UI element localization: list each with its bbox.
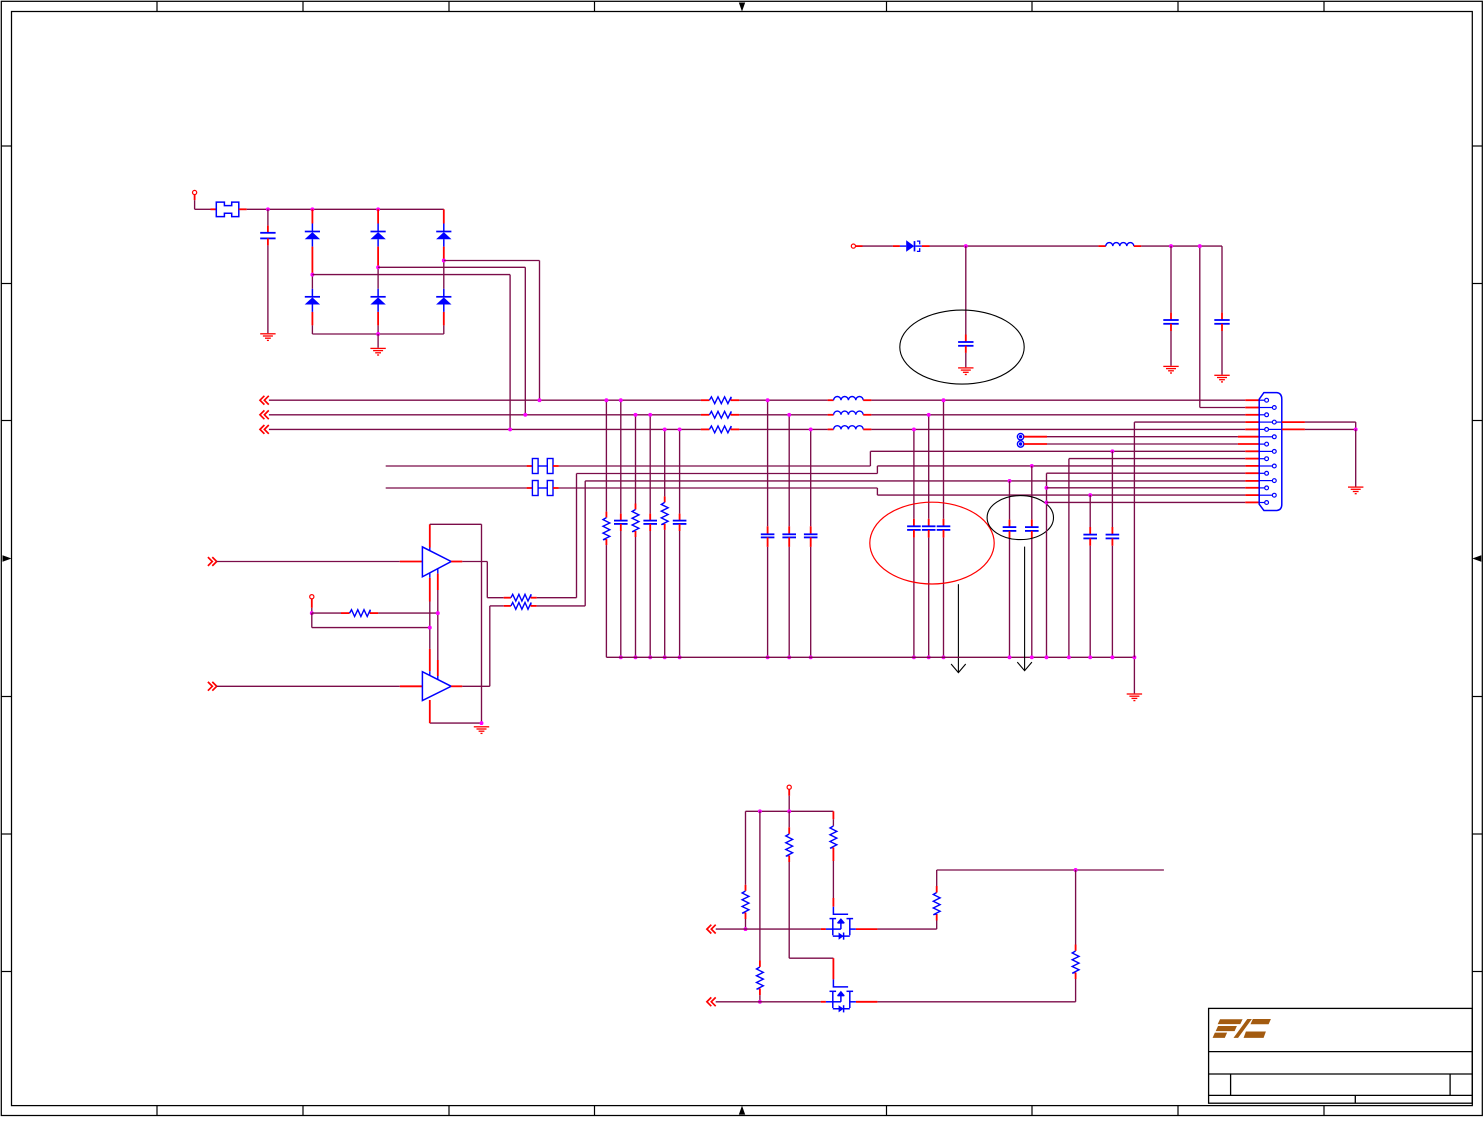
capacitor C52 bbox=[1025, 527, 1039, 531]
wire R23 to bus bbox=[664, 524, 666, 657]
wire R2 lead left bbox=[701, 414, 710, 416]
wire pin15 row bbox=[1047, 501, 1246, 503]
resistor R32 bbox=[511, 594, 531, 601]
junction buffer gnd bbox=[480, 721, 484, 725]
wire pin15 stub bbox=[1245, 501, 1259, 503]
wire R31 to U1 pin bbox=[370, 612, 438, 614]
port chevron video line 2 bbox=[260, 410, 269, 419]
wire drop to C31 bbox=[767, 400, 769, 534]
wire R46 drop bbox=[1075, 870, 1077, 951]
wire TP3 to D7 bbox=[856, 245, 907, 247]
wire bus to ground bbox=[377, 334, 379, 348]
capacitor C23 bbox=[673, 521, 687, 524]
resistor R12 on line 2 bbox=[709, 411, 731, 418]
wire C43 to bus bbox=[913, 530, 915, 657]
wire R32 to riser bbox=[531, 474, 577, 598]
junction v1046 bus bbox=[1045, 655, 1049, 659]
wire line 1 mid run bbox=[739, 399, 827, 401]
diode D7 bbox=[906, 240, 922, 252]
junction pin14 row bbox=[1088, 493, 1092, 497]
junction line3-bridge bbox=[508, 427, 512, 431]
wire filter line 2 to step bbox=[559, 487, 878, 489]
junction C41 top bbox=[942, 398, 946, 402]
wire C32 to bus bbox=[788, 537, 790, 657]
wire video line 3 left run bbox=[269, 428, 701, 430]
wire bridge row1 to line1 bbox=[444, 261, 540, 401]
wire R42 to sig2 bbox=[759, 989, 761, 1002]
inductor L3 bbox=[834, 426, 864, 430]
wire step up to pin8 row bbox=[869, 451, 871, 466]
wire C41 to bus bbox=[943, 530, 945, 657]
resistor R31 bbox=[350, 610, 371, 617]
port chevron signal 1 bbox=[707, 925, 716, 934]
wire pin13 row bbox=[1047, 487, 1246, 489]
capacitor C42 bbox=[922, 526, 936, 530]
wire U1A output bbox=[451, 562, 511, 598]
wire pin11 stub bbox=[1245, 472, 1259, 474]
wire C21 to bus bbox=[620, 524, 622, 657]
junction C33 bus bbox=[809, 655, 813, 659]
capacitor C63 bbox=[1214, 320, 1229, 324]
wire line 1 connector stub bbox=[1245, 399, 1259, 401]
wire drop to C43 bbox=[913, 429, 915, 526]
wire pin7 row bbox=[1024, 443, 1259, 445]
junction C32 bus bbox=[787, 655, 791, 659]
wire TP4 down bbox=[788, 789, 790, 811]
wire R22 to bus bbox=[635, 531, 637, 657]
wire pin4 riser bbox=[1133, 422, 1135, 657]
inductor L1 bbox=[834, 397, 864, 401]
wire FB2 lead left bbox=[527, 487, 533, 489]
wire TP1 to fuse bbox=[195, 195, 217, 210]
wire bridge row3 to line3 bbox=[312, 275, 510, 430]
junction pin13 riser bbox=[1045, 486, 1049, 490]
ground below C63 bbox=[1214, 375, 1229, 382]
wire R2 lead right bbox=[731, 414, 740, 416]
diode D3 bbox=[436, 224, 451, 247]
wire R42 drop bbox=[759, 811, 761, 967]
wire pin9 row bbox=[1069, 458, 1245, 460]
junction R31 at pin b bbox=[436, 611, 440, 615]
ground below C62 bbox=[1163, 366, 1178, 373]
wire drop to C42 bbox=[928, 415, 930, 526]
wire C1 to ground bbox=[267, 238, 269, 333]
wire v1031 cap drop bbox=[1031, 466, 1033, 527]
wire D2 anode lead bbox=[377, 209, 379, 223]
wire video line 1 left run bbox=[269, 399, 701, 401]
wire pin9 stub bbox=[1245, 458, 1259, 460]
terminal TP4 bbox=[787, 785, 791, 789]
wire C61 to ground bbox=[965, 346, 967, 368]
junction pin10 row bbox=[1030, 464, 1034, 468]
wire drop to C21 bbox=[620, 400, 622, 520]
resistor R45 bbox=[933, 893, 940, 915]
wire D1 anode lead bbox=[311, 209, 313, 223]
wire line 3 connector stub bbox=[1245, 428, 1259, 430]
resistor R33 bbox=[511, 603, 531, 610]
junction R41 sig1 bbox=[744, 927, 748, 931]
capacitor C51 bbox=[1003, 527, 1017, 531]
wire L3 lead left bbox=[828, 428, 834, 430]
wire buffer gnd rail bottom bbox=[430, 700, 482, 723]
junction line2-bridge bbox=[523, 413, 527, 417]
wire buffer2 input bbox=[217, 685, 423, 687]
FIC company logo bbox=[1213, 1019, 1271, 1038]
inductor L4 bbox=[1106, 243, 1134, 246]
wire R44 drop bbox=[832, 811, 834, 826]
junction pin12 row bbox=[1008, 479, 1012, 483]
wire ground bus bbox=[606, 656, 1134, 658]
wire filter line 2 left bbox=[386, 487, 527, 489]
ferrite bead FB1b bbox=[547, 459, 553, 474]
wire C51 to bus bbox=[1009, 531, 1011, 657]
wire pin9 riser bbox=[1068, 459, 1070, 658]
junction C41 bus bbox=[942, 655, 946, 659]
junction TP2 node bbox=[310, 611, 314, 615]
wire R3 lead left bbox=[701, 428, 710, 430]
wire drop to R22 bbox=[635, 415, 637, 510]
resistor R44 bbox=[830, 826, 837, 848]
wire L2 lead right bbox=[863, 414, 871, 416]
wire U1A pin stub b bbox=[437, 569, 439, 680]
wire drop to R23 bbox=[664, 429, 666, 502]
junction C32 top bbox=[787, 413, 791, 417]
wire line 2 connector stub bbox=[1245, 414, 1259, 416]
wire R3 lead right bbox=[731, 428, 740, 430]
wire pin10 stub bbox=[1245, 465, 1259, 467]
junction C33 top bbox=[809, 427, 813, 431]
diode D4 bbox=[305, 289, 320, 312]
terminal TP2 bbox=[310, 595, 314, 599]
resistor R13 on line 3 bbox=[709, 426, 731, 433]
capacitor C54 bbox=[1106, 535, 1120, 539]
wire pin11 riser bbox=[1046, 473, 1048, 657]
annotation arrow 2 bbox=[1017, 547, 1032, 671]
junction C42 bus bbox=[927, 655, 931, 659]
port chevron signal 2 bbox=[707, 997, 716, 1006]
wire C63 to ground bbox=[1221, 324, 1223, 375]
wire buffer power rail bbox=[430, 524, 482, 723]
wire D1 to mid row bbox=[311, 247, 313, 289]
wire v1009 cap drop bbox=[1009, 481, 1011, 527]
junction C53 bus bbox=[1088, 655, 1092, 659]
resistor R22 bbox=[632, 510, 639, 532]
wire step down to pin14 row bbox=[876, 488, 878, 495]
junction on top rail at D1 bbox=[310, 207, 314, 211]
wire C53 to bus bbox=[1089, 538, 1091, 657]
junction C51 bus bbox=[1008, 655, 1012, 659]
wire D5 to bottom bus bbox=[377, 312, 379, 334]
wire pin2 feed bbox=[1200, 246, 1259, 407]
junction on top rail at C1 bbox=[266, 207, 270, 211]
wire R41 drop bbox=[745, 811, 747, 891]
port chevron VSYNC in bbox=[208, 682, 217, 691]
wire gate rail bbox=[746, 810, 834, 812]
junction R23 top bbox=[663, 427, 667, 431]
ground at bus end bbox=[1127, 694, 1142, 701]
junction C31 bus bbox=[766, 655, 770, 659]
wire pin4 row bbox=[1134, 421, 1245, 423]
wire pin14 stub bbox=[1245, 494, 1259, 496]
wire pin10 row bbox=[877, 465, 1245, 467]
wire C63 drop bbox=[1221, 246, 1223, 320]
wire R46 to Q2 drain bbox=[856, 973, 1076, 1002]
wire R41 to sig1 bbox=[745, 913, 747, 930]
wire U1A pin stub a bbox=[429, 573, 431, 676]
junction C31 top bbox=[766, 398, 770, 402]
wire pin12 stub bbox=[1245, 480, 1259, 482]
diode D6 bbox=[436, 289, 451, 312]
wire step up to pin10 row bbox=[876, 466, 878, 474]
diode D1 bbox=[305, 224, 320, 247]
junction rail a bbox=[758, 809, 762, 813]
capacitor C61 bbox=[958, 342, 973, 346]
junction C42 top bbox=[927, 413, 931, 417]
resistor R42 bbox=[757, 967, 764, 989]
wire C54 to bus bbox=[1111, 538, 1113, 657]
wire v1090 cap drop bbox=[1089, 495, 1091, 534]
wire drop to C22 bbox=[649, 415, 651, 521]
wire C42 to bus bbox=[928, 530, 930, 657]
port chevron HSYNC in bbox=[208, 557, 217, 566]
junction at pin2 feed bbox=[1198, 244, 1202, 248]
wire R31 lead left bbox=[312, 612, 350, 614]
wire buffer1 line to step bbox=[577, 473, 878, 475]
wire C31 to bus bbox=[767, 537, 769, 657]
wire fuse to top rail bbox=[239, 208, 268, 210]
ground below bridge bbox=[370, 348, 385, 355]
wire C23 to bus bbox=[679, 524, 681, 657]
junction branch at pin a bbox=[428, 626, 432, 630]
wire L1 lead right bbox=[863, 399, 871, 401]
capacitor C53 bbox=[1083, 535, 1097, 539]
wire D6 to bottom bus bbox=[443, 312, 445, 334]
wire D4 to bottom bus bbox=[311, 312, 313, 334]
junction R23 bus bbox=[663, 655, 667, 659]
wire pin5 right exit bbox=[1282, 428, 1356, 430]
wire FB1 lead left bbox=[527, 465, 533, 467]
terminal TP3 bbox=[851, 244, 855, 248]
junction C21 bus bbox=[619, 655, 623, 659]
ferrite bead FB2b bbox=[547, 481, 553, 496]
bead terminal pin6 bbox=[1017, 434, 1023, 440]
junction on top rail at D2 bbox=[376, 207, 380, 211]
resistor R46 bbox=[1072, 951, 1079, 973]
wire TP2 down bbox=[311, 599, 313, 613]
resistor R43 bbox=[786, 834, 793, 856]
wire L4 to caps bbox=[1134, 245, 1222, 247]
wire bus stem to ground bbox=[1133, 657, 1135, 693]
wire pin11 row bbox=[1047, 472, 1246, 474]
connector J1 DB15 bbox=[1259, 393, 1282, 511]
junction shield node bbox=[1354, 427, 1358, 431]
wire C62 drop bbox=[1170, 246, 1172, 320]
capacitor C21 bbox=[614, 521, 628, 524]
wire U1B output bbox=[451, 606, 511, 686]
wire D7 to L4 bbox=[922, 245, 1106, 247]
wire R1 lead left bbox=[701, 399, 710, 401]
junction R21 top bbox=[604, 398, 608, 402]
resistor R41 bbox=[742, 891, 749, 913]
wire pin4 right exit bbox=[1282, 422, 1356, 429]
junction R42 sig2 bbox=[758, 1000, 762, 1004]
capacitor C43 bbox=[907, 526, 921, 530]
junction bridge bus bbox=[376, 332, 380, 336]
wire line 3 mid run bbox=[739, 428, 827, 430]
wire signal1 bbox=[716, 928, 826, 930]
wire C52 to bus bbox=[1031, 531, 1033, 657]
junction line1-bridge bbox=[538, 398, 542, 402]
buffer U1A bbox=[422, 547, 451, 577]
wire drop to C32 bbox=[788, 415, 790, 534]
junction at C61 tap bbox=[964, 244, 968, 248]
diode D5 bbox=[370, 289, 385, 312]
terminal TP1 bbox=[193, 190, 197, 194]
inductor L2 bbox=[834, 411, 864, 415]
annotation arrow 1 bbox=[951, 584, 966, 672]
wire line 2 mid run bbox=[739, 414, 827, 416]
wire TP2 branch down bbox=[312, 613, 430, 628]
wire R43 drop bbox=[788, 811, 790, 834]
capacitor C41 bbox=[937, 526, 951, 530]
capacitor C62 bbox=[1163, 320, 1178, 324]
wire FB2 link bbox=[538, 487, 547, 489]
ground buffers bbox=[474, 727, 489, 734]
resistor R23 bbox=[661, 502, 668, 524]
junction v1068 bus bbox=[1067, 655, 1071, 659]
wire pin8 stub bbox=[1245, 450, 1259, 452]
capacitor C31 bbox=[761, 534, 775, 537]
capacitor C1 bbox=[260, 233, 275, 239]
junction C23 bus bbox=[678, 655, 682, 659]
wire D2 to mid row bbox=[377, 247, 379, 289]
wire R44 to Q1 gate bbox=[832, 848, 834, 907]
wire bridge row2 to line2 bbox=[378, 267, 525, 415]
wire D3 to mid row bbox=[443, 247, 445, 289]
wire filter line 1 left bbox=[386, 465, 527, 467]
wire R1 lead right bbox=[731, 399, 740, 401]
junction C43 bus bbox=[912, 655, 916, 659]
wire line 2 right run bbox=[871, 414, 1245, 416]
fuse F1 bbox=[216, 202, 239, 217]
junction C21 top bbox=[619, 398, 623, 402]
wire line 1 right run bbox=[871, 399, 1245, 401]
resistor R11 on line 1 bbox=[709, 397, 731, 404]
junction C22 top bbox=[648, 413, 652, 417]
resistor R21 bbox=[603, 518, 610, 540]
bead terminal pin7 bbox=[1017, 441, 1023, 447]
diode D2 bbox=[370, 224, 385, 247]
ground below C1 bbox=[260, 334, 275, 341]
wire L3 lead right bbox=[863, 428, 871, 430]
wire U1A power pin up bbox=[429, 524, 431, 551]
junction at D2 cathode row bbox=[376, 265, 380, 269]
junction top wire bbox=[1074, 868, 1078, 872]
title block bbox=[1209, 1008, 1473, 1103]
wire FB1 lead right bbox=[553, 465, 559, 467]
wire pin14 row bbox=[877, 494, 1245, 496]
wire v1112 cap drop bbox=[1111, 451, 1113, 534]
capacitor C33 bbox=[804, 534, 818, 537]
junction C23 top bbox=[678, 427, 682, 431]
red highlight ellipse bbox=[870, 502, 994, 584]
junction bus end bbox=[1132, 655, 1136, 659]
transistor Q1 bbox=[826, 907, 856, 940]
junction R22 bus bbox=[634, 655, 638, 659]
wire bridge bottom bus bbox=[312, 333, 443, 335]
junction at C62 bbox=[1169, 244, 1173, 248]
ground below C61 bbox=[958, 368, 973, 375]
junction pin8 row bbox=[1110, 449, 1114, 453]
wire L2 lead left bbox=[828, 414, 834, 416]
buffer U1B bbox=[422, 672, 451, 701]
junction R22 top bbox=[634, 413, 638, 417]
wire C22 to bus bbox=[649, 524, 651, 657]
wire FB1 link bbox=[538, 465, 547, 467]
transistor Q2 bbox=[826, 979, 856, 1012]
junction C22 bus bbox=[648, 655, 652, 659]
black highlight ellipse bbox=[987, 496, 1053, 540]
wire pin8 row bbox=[870, 450, 1245, 452]
wire drop to C33 bbox=[810, 429, 812, 534]
wire pin4 stub bbox=[1245, 421, 1259, 423]
wire top rail bbox=[268, 208, 444, 210]
wire video line 2 left run bbox=[269, 414, 701, 416]
wire C61 drop bbox=[965, 246, 967, 342]
junction at D3 cathode row bbox=[442, 259, 446, 263]
junction C43 top bbox=[912, 427, 916, 431]
wire buffer1 input bbox=[217, 561, 423, 563]
wire pin13 stub bbox=[1245, 487, 1259, 489]
capacitor C22 bbox=[643, 521, 657, 524]
junction rail b bbox=[787, 809, 791, 813]
wire pin12 row bbox=[585, 480, 1245, 482]
wire drop to R21 bbox=[605, 400, 607, 517]
wire R45 top bbox=[937, 870, 1164, 893]
wire L1 lead left bbox=[828, 399, 834, 401]
port chevron video line 1 bbox=[260, 396, 269, 405]
wire Q1 drain right bbox=[856, 914, 937, 929]
wire C62 to ground bbox=[1170, 324, 1172, 366]
wire C1 lead bbox=[267, 209, 269, 232]
ferrite bead FB2a bbox=[532, 481, 538, 496]
wire line 3 right run bbox=[871, 428, 1245, 430]
ground connector shield bbox=[1348, 487, 1363, 494]
wire D3 anode lead bbox=[443, 209, 445, 223]
wire FB2 lead right bbox=[553, 487, 559, 489]
wire R43 to Q2 gate bbox=[789, 856, 833, 980]
wire drop to C41 bbox=[943, 400, 945, 526]
wire C33 to bus bbox=[810, 537, 812, 657]
capacitor C32 bbox=[782, 534, 796, 537]
black highlight ellipse power bbox=[900, 310, 1024, 384]
junction at D1 cathode row bbox=[310, 273, 314, 277]
wire R33 to riser bbox=[531, 481, 586, 606]
wire pin6 row bbox=[1024, 436, 1259, 438]
wire drop to C23 bbox=[679, 429, 681, 520]
wire signal2 bbox=[716, 1001, 826, 1003]
wire shield to ground bbox=[1355, 429, 1357, 486]
junction C52 bus bbox=[1030, 655, 1034, 659]
junction C54 bus bbox=[1110, 655, 1114, 659]
junction pin15 riser bbox=[1045, 500, 1049, 504]
wire filter line 1 to step bbox=[559, 465, 871, 467]
ferrite bead FB1a bbox=[532, 459, 538, 474]
wire R21 to bus bbox=[605, 539, 607, 657]
port chevron video line 3 bbox=[260, 425, 269, 434]
